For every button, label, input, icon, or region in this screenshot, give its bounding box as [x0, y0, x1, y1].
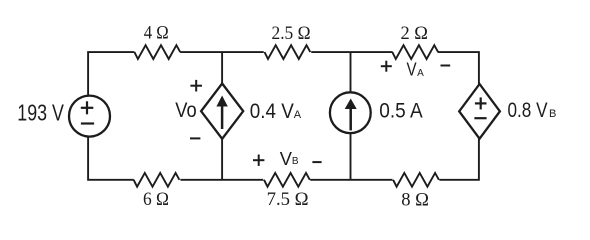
wire node A top to dependent source: [221, 52, 223, 84]
dependent voltage source 0.8 VB (diamond): [459, 84, 500, 139]
svg-text:0.5 A: 0.5 A: [379, 98, 423, 122]
resistor 2 ohm: [392, 45, 438, 59]
resistor 8 ohm: [393, 173, 439, 187]
resistor 7.5 ohm: [264, 173, 310, 187]
wire top-right corner run: [438, 52, 479, 84]
wire top between 2.5ohm and 2ohm: [311, 51, 392, 53]
svg-text:2.5 Ω: 2.5 Ω: [272, 23, 311, 44]
label minus of VB: [312, 161, 321, 163]
label minus of Vo: [190, 137, 200, 139]
svg-text:V: V: [280, 148, 293, 169]
wire top between 4ohm and 2.5ohm: [180, 51, 264, 53]
svg-text:4 Ω: 4 Ω: [144, 23, 169, 44]
svg-text:193 V: 193 V: [17, 100, 64, 126]
svg-text:B: B: [549, 108, 556, 120]
svg-text:A: A: [294, 109, 302, 121]
label plus of VB: [253, 155, 264, 166]
wire bottom-left corner run: [88, 136, 134, 180]
svg-text:V: V: [407, 60, 417, 80]
svg-text:A: A: [417, 68, 424, 79]
wire dependent source to bottom: [221, 139, 223, 180]
dependent current source 0.4 VA (diamond): [201, 84, 243, 139]
label 0.4 VA: [250, 99, 302, 123]
resistor 4 ohm: [134, 45, 180, 59]
svg-text:2 Ω: 2 Ω: [401, 23, 429, 44]
current source 0.5 A: [330, 92, 371, 133]
label plus of VA: [381, 61, 392, 72]
resistor 6 ohm: [134, 173, 180, 187]
svg-text:7.5 Ω: 7.5 Ω: [267, 189, 309, 210]
label plus of Vo: [190, 80, 202, 92]
resistor 2.5 ohm: [265, 45, 311, 59]
svg-text:0.4 V: 0.4 V: [250, 99, 295, 123]
wire bottom between 6ohm and 7.5ohm: [180, 179, 263, 181]
label 0.8 VB: [508, 98, 557, 122]
wire top-left corner run: [88, 52, 134, 96]
svg-text:0.8 V: 0.8 V: [508, 98, 549, 122]
svg-text:Vo: Vo: [175, 98, 196, 122]
svg-text:B: B: [292, 156, 299, 167]
wire bottom-right corner run: [439, 138, 479, 179]
wire current source to bottom: [350, 133, 352, 180]
svg-text:8 Ω: 8 Ω: [401, 189, 429, 210]
wire node B top to current source: [350, 52, 352, 93]
svg-text:6 Ω: 6 Ω: [143, 189, 169, 210]
label VB: [280, 148, 299, 169]
voltage source 193 V: [69, 96, 110, 137]
label minus of VA: [441, 65, 451, 67]
wire bottom between 7.5ohm and 8ohm: [310, 179, 392, 181]
label VA: [407, 60, 425, 80]
